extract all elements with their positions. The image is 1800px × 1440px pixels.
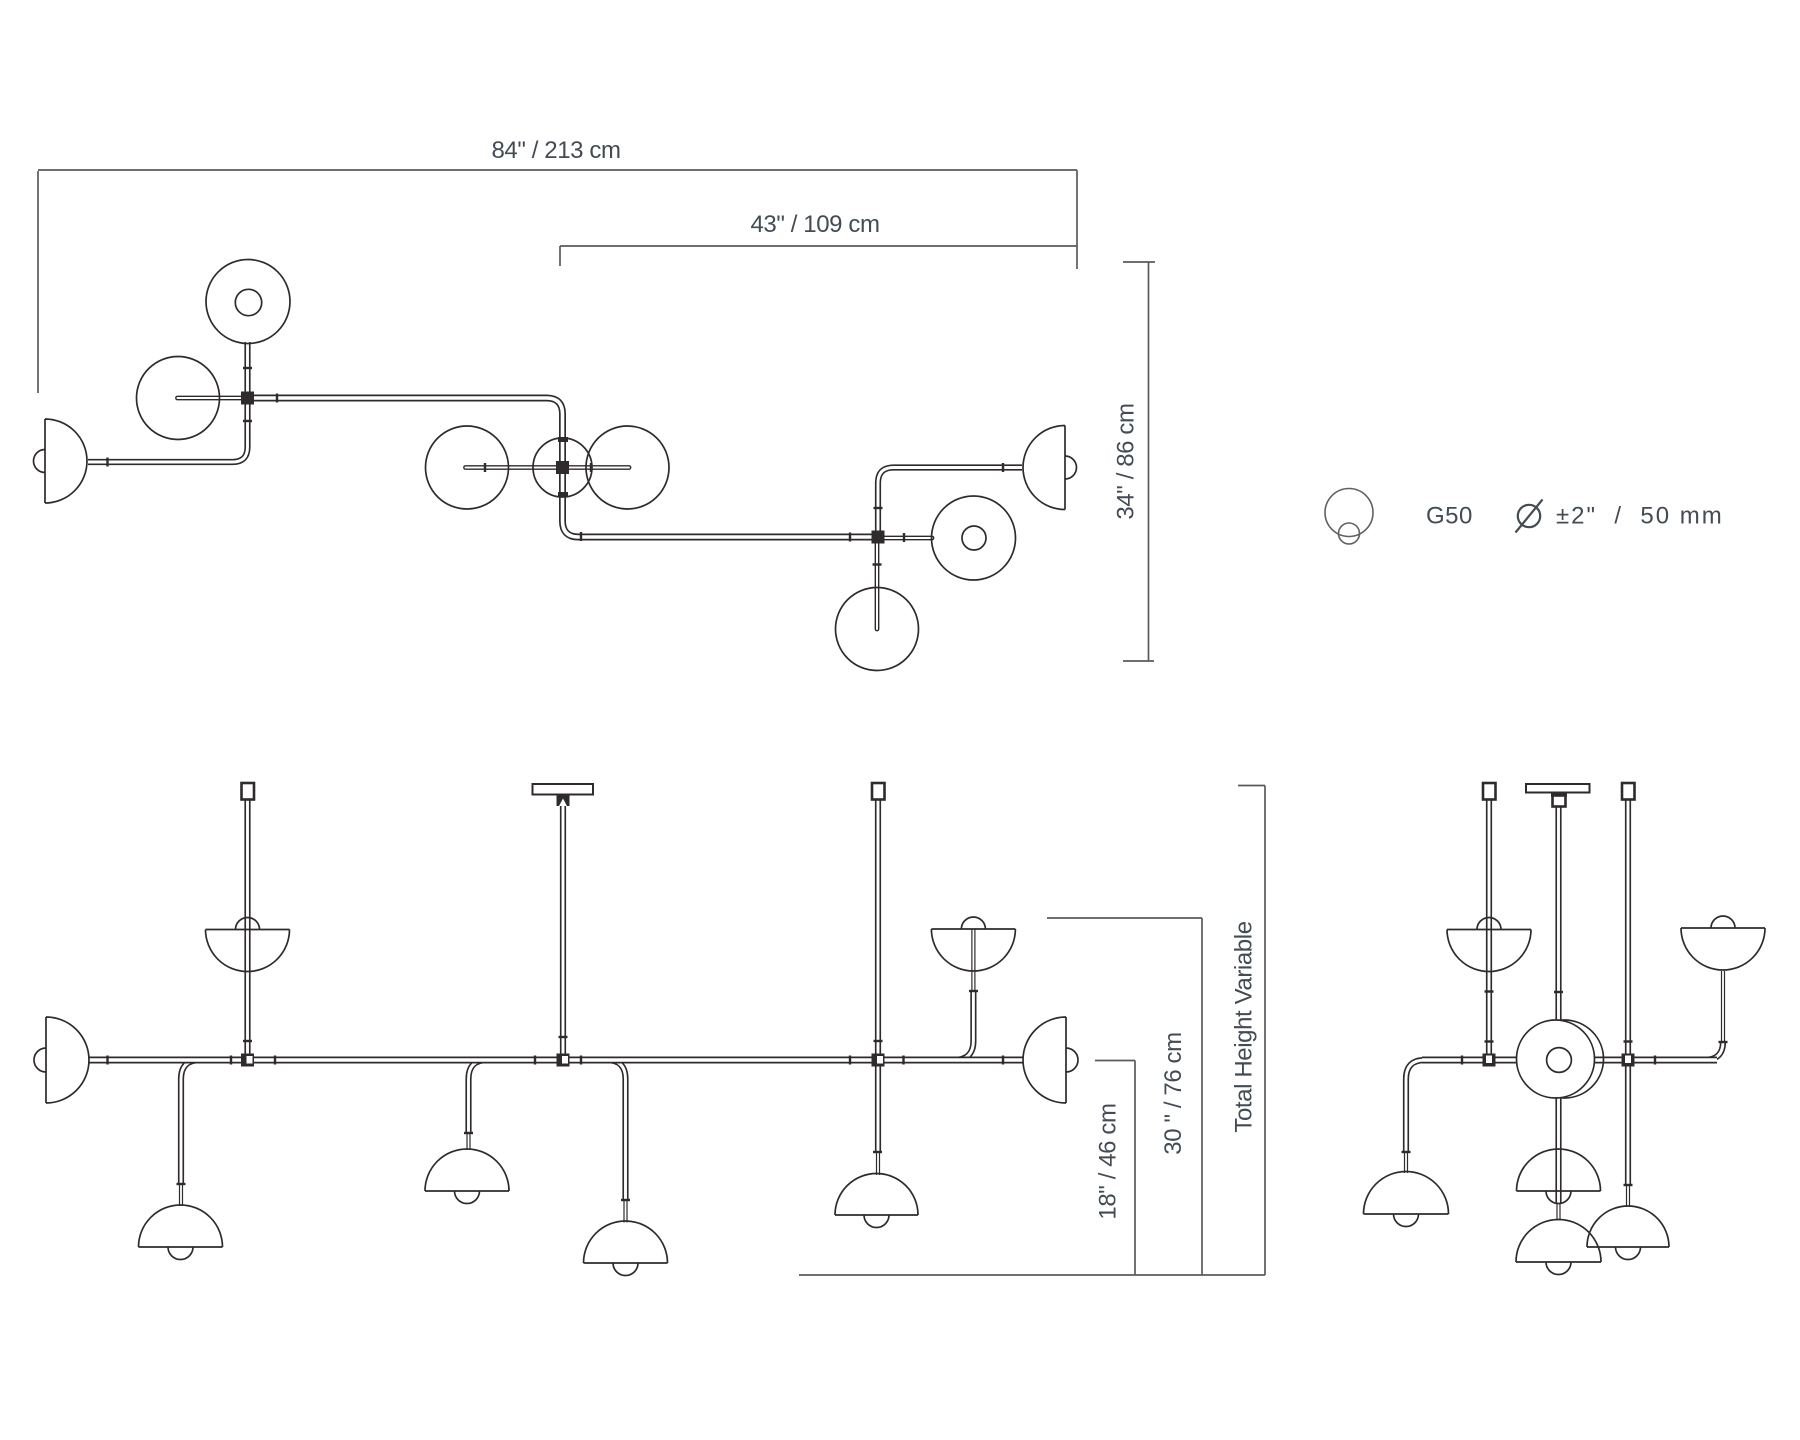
dimension 18" / 46 cm (1095, 1061, 1136, 1276)
front joint ticks (108, 991, 1004, 1200)
end drop rod M (1555, 805, 1561, 1221)
front left dome (34, 1017, 89, 1103)
front drop rod 2 (560, 805, 566, 1060)
front drop rod 3 (875, 799, 881, 1175)
end main bar (1422, 1057, 1717, 1064)
end elbow arm up to bowl ER (1686, 971, 1723, 1060)
svg-text:84" / 213 cm: 84" / 213 cm (491, 137, 620, 164)
dimension Total Height Variable (1231, 786, 1266, 1276)
plan rod to globe G1 (178, 396, 248, 401)
front right dome (1023, 1017, 1078, 1103)
end drop rod R (1625, 799, 1631, 1207)
end canopy plate (1526, 784, 1590, 793)
front up-bowl FB2 (931, 917, 1015, 971)
svg-text:G50: G50 (1426, 503, 1473, 530)
plan globe G4 (836, 588, 919, 671)
dimension baseline (799, 1274, 1265, 1276)
end joint ticks (1402, 992, 1728, 1186)
end node R (1622, 1054, 1635, 1067)
legend diameter symbol (1516, 500, 1543, 533)
plan arm: node3 up-right to right dome (878, 468, 1022, 536)
plan rod through canopy node2 (466, 465, 630, 470)
front down dome FD2 (425, 1149, 509, 1204)
front canopy block (557, 795, 570, 807)
end up-bowl L (1447, 918, 1531, 972)
plan left dome shade (34, 419, 88, 503)
plan main arm: node1 to node3 (Z bend) (248, 398, 879, 537)
plan globe G2 (426, 426, 509, 509)
end down dome R (1587, 1206, 1669, 1259)
dimension 34" / 86 cm (1113, 262, 1156, 661)
svg-text:34" / 86 cm: 34" / 86 cm (1113, 403, 1140, 519)
plan node 2 (556, 461, 569, 474)
front S-arm to dome FD2 (469, 1060, 505, 1150)
plan globe G1 (137, 357, 220, 440)
end canopy block (1551, 793, 1567, 807)
end down dome M lower (1516, 1220, 1601, 1275)
plan top disc (up-bowl seen from top) (206, 260, 290, 344)
plan joint ticks (108, 368, 1004, 565)
dimension 43" / 109 cm (560, 211, 1077, 266)
front down dome FD3 (584, 1221, 668, 1276)
front down dome FD4 (835, 1174, 918, 1228)
svg-text:±2" / 50 mm: ±2" / 50 mm (1556, 503, 1724, 530)
legend bulb G50 (1325, 489, 1373, 545)
plan node 3 (872, 531, 885, 544)
end down dome M upper (1517, 1149, 1601, 1204)
front node 2 (557, 1054, 570, 1067)
svg-text:43" / 109 cm: 43" / 109 cm (750, 211, 879, 238)
front rod cap 1 (242, 783, 255, 800)
front node 1 (241, 1054, 254, 1067)
dimension 30" / 76 cm (1047, 918, 1202, 1275)
front arm up to bowl FB2 (942, 929, 973, 1060)
plan globe G3 (586, 426, 669, 509)
svg-text:18" / 46 cm: 18" / 46 cm (1095, 1103, 1122, 1219)
plan node 1 (241, 392, 254, 405)
front main bar (88, 1057, 1023, 1064)
front canopy plate (533, 784, 594, 795)
front node 3 (872, 1054, 885, 1067)
end rod cap L (1483, 783, 1496, 800)
front rod cap 3 (872, 783, 885, 800)
front S-arm to dome FD3 (588, 1060, 626, 1223)
dimension 84" / 213 cm (38, 137, 1077, 393)
plan arm: node1 down-left to left dome (88, 400, 248, 462)
front drop rod 1 (244, 799, 250, 1060)
plan right dome shade (1023, 426, 1077, 510)
end node L (1483, 1054, 1496, 1067)
front down dome FD1 (139, 1205, 223, 1259)
end center disc (1517, 1020, 1604, 1098)
front up-bowl FB1 (206, 918, 290, 972)
end drop rod L (1486, 799, 1492, 1060)
end rod cap R (1622, 783, 1635, 800)
svg-text:30 " / 76 cm: 30 " / 76 cm (1160, 1032, 1187, 1154)
front S-arm to dome FD1 (181, 1060, 210, 1206)
end down dome L (1364, 1172, 1449, 1227)
end up-bowl R (1681, 916, 1765, 970)
plan canopy ring at node2 (533, 438, 592, 497)
end elbow arm to dome EL (1406, 1060, 1440, 1173)
plan rod node3 to disc D2 (878, 536, 932, 541)
plan disc D2 (932, 496, 1016, 580)
plan stem: node1 up to top disc (244, 342, 250, 398)
svg-text:Total Height Variable: Total Height Variable (1231, 921, 1258, 1132)
plan rod node3 down to globe G4 (875, 537, 880, 629)
